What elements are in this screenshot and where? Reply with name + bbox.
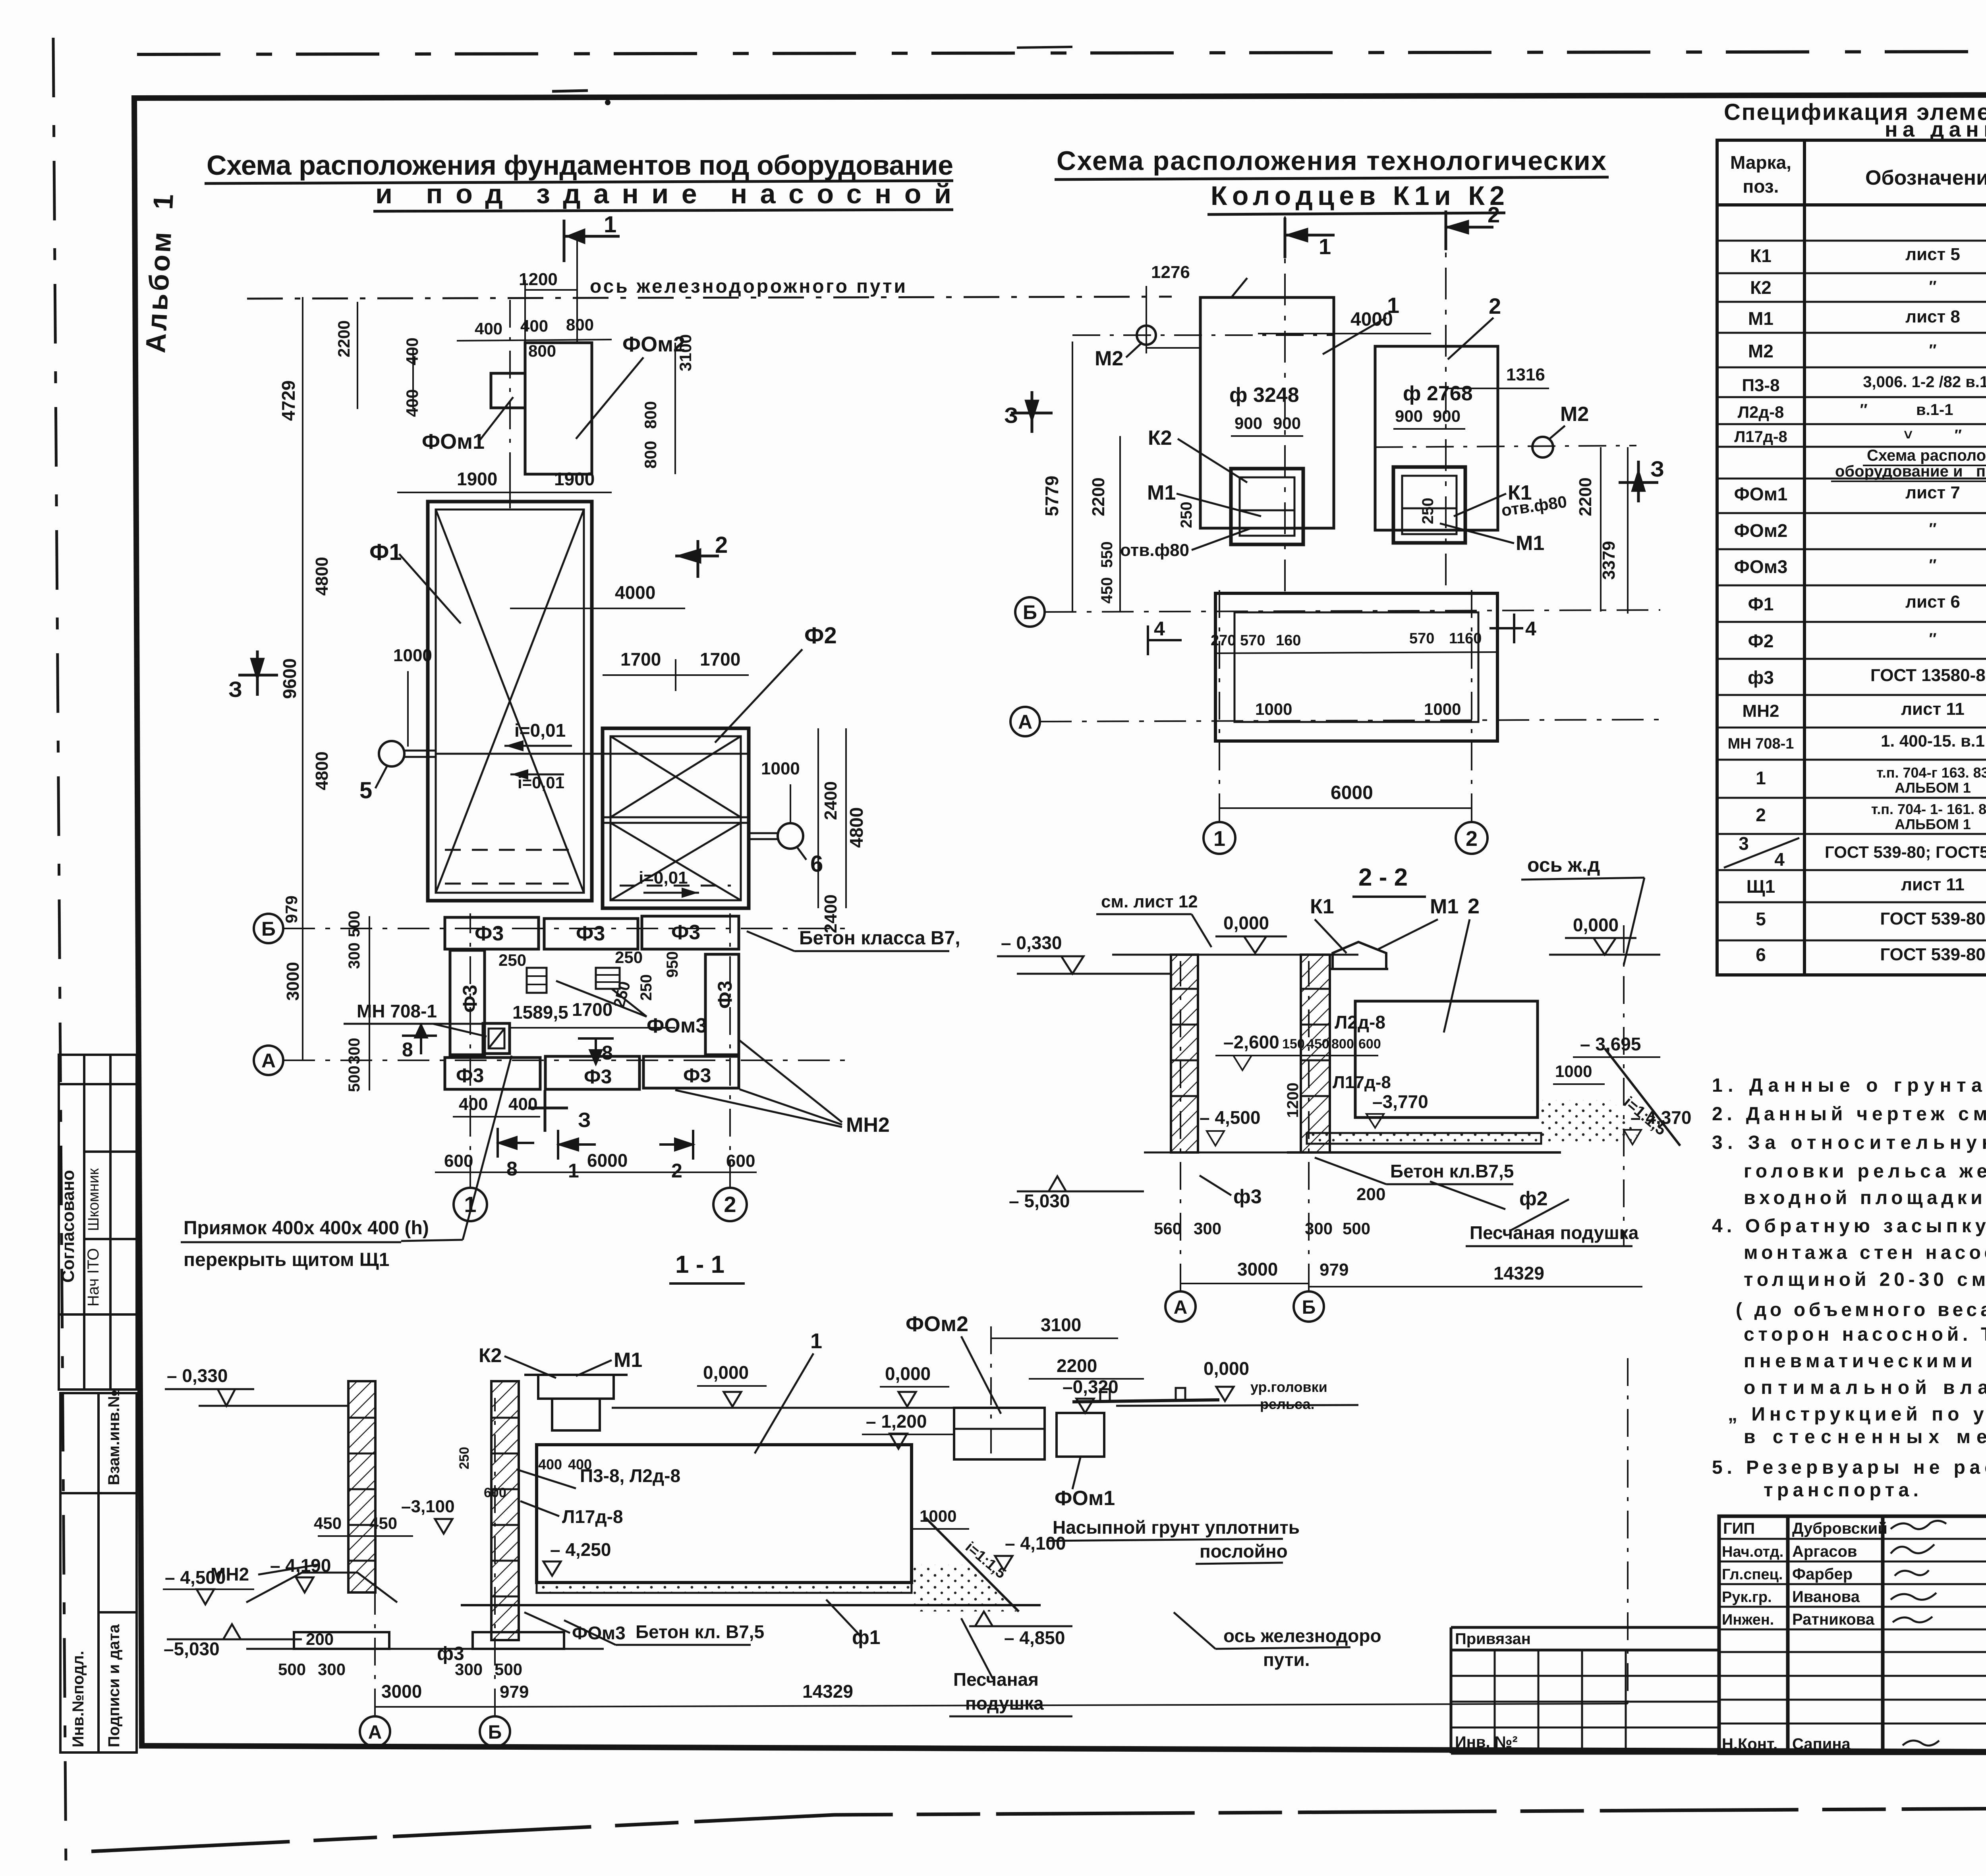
svg-text:1000: 1000 [1555, 1062, 1592, 1081]
svg-text:головки рельса железнодорожн: головки рельса железнодорожного пути и у… [1744, 1161, 1986, 1182]
M2 right [1532, 437, 1553, 457]
svg-text:Л2д-8: Л2д-8 [1335, 1012, 1385, 1033]
svg-text:950: 950 [664, 951, 681, 978]
svg-text:ФОм1: ФОм1 [1734, 484, 1788, 504]
outlet circle 6 [778, 823, 803, 849]
svg-text:200: 200 [306, 1630, 334, 1648]
section flag 3 left (middle plan) [1011, 391, 1053, 433]
F2 split [603, 816, 749, 818]
svg-text:З: З [578, 1109, 591, 1132]
svg-text:1000: 1000 [761, 759, 800, 778]
svg-text:Л17д-8: Л17д-8 [562, 1506, 623, 1527]
svg-text:Ф1: Ф1 [1748, 594, 1774, 614]
svg-text:Бетон класса В7,: Бетон класса В7, [799, 928, 960, 949]
svg-text:3,006. 1-2 /82 в.1-2: 3,006. 1-2 /82 в.1-2 [1863, 373, 1986, 391]
inlet circle 5 [379, 741, 404, 766]
svg-text:250: 250 [457, 1447, 472, 1469]
svg-text:– 4,850: – 4,850 [1004, 1627, 1065, 1648]
svg-text:Б: Б [1302, 1297, 1316, 1318]
left wall column (1-1) [348, 1381, 375, 1592]
svg-text:1276: 1276 [1151, 262, 1190, 282]
svg-text:лист 7: лист 7 [1905, 483, 1960, 502]
svg-text:ФОм3: ФОм3 [647, 1014, 707, 1037]
svg-text:ФОм3: ФОм3 [572, 1623, 626, 1643]
svg-text:входной площадки насосной.: входной площадки насосной. [1744, 1187, 1986, 1208]
svg-text:14329: 14329 [1493, 1263, 1544, 1283]
svg-text:Ф3: Ф3 [671, 921, 700, 944]
slope and sand (1-1) [925, 1518, 1019, 1612]
svg-text:3100: 3100 [676, 334, 695, 371]
svg-text:400: 400 [508, 1094, 537, 1114]
pallet F1 inner [436, 510, 584, 893]
axis B (left plan) [254, 914, 283, 943]
section flag 1 (top) [564, 220, 620, 262]
section flag 3 (left) [238, 650, 278, 696]
svg-text:– 4,370: – 4,370 [1631, 1107, 1691, 1128]
svg-text:Н.Конт.: Н.Конт. [1722, 1735, 1777, 1753]
svg-text:2: 2 [715, 532, 728, 558]
section line 1 (middle plan) [1284, 216, 1286, 596]
svg-text:М2: М2 [1560, 403, 1589, 426]
M2 left [1137, 326, 1156, 345]
rails (1-1) [1072, 1400, 1219, 1402]
svg-text:2400: 2400 [821, 781, 840, 820]
svg-text:Аргасов: Аргасов [1792, 1543, 1857, 1560]
svg-text:ГОСТ 13580-85: ГОСТ 13580-85 [1870, 666, 1986, 685]
bottom slab (1-1) [537, 1583, 912, 1593]
svg-text:Привязан: Привязан [1455, 1630, 1531, 1648]
svg-text:1000: 1000 [1255, 700, 1292, 718]
svg-text:рельса.: рельса. [1260, 1396, 1315, 1412]
svg-text:450: 450 [1098, 577, 1116, 604]
reservoir 2 outline [1375, 346, 1498, 530]
well cap (2-2) [1333, 942, 1386, 969]
svg-text:900: 900 [1395, 407, 1423, 425]
svg-text:ф1: ф1 [852, 1626, 881, 1648]
svg-text:1: 1 [1319, 234, 1331, 259]
svg-text:МН2: МН2 [1743, 701, 1779, 721]
svg-text:4: 4 [1154, 618, 1165, 640]
svg-text:150: 150 [1282, 1036, 1305, 1052]
svg-text:Ф3: Ф3 [714, 981, 736, 1009]
svg-text:2200: 2200 [1576, 477, 1595, 516]
svg-text:толщиной 20-30 см. с плотной: толщиной 20-30 см. с плотной трамбовкой [1744, 1269, 1986, 1290]
svg-text:– 0,330: – 0,330 [167, 1365, 228, 1386]
axis B (middle plan) [1015, 597, 1045, 627]
svg-text:в стесненных местах” СН 536-: в стесненных местах” СН 536-81 [1744, 1426, 1986, 1448]
svg-text:500: 500 [1343, 1219, 1370, 1238]
svg-text:К2: К2 [1750, 277, 1772, 298]
svg-text:оптимальной влажности грун: оптимальной влажности грунта . в соответ… [1744, 1377, 1986, 1398]
svg-text:Схема расположения технологи: Схема расположения технологических [1057, 146, 1606, 176]
svg-text:3: 3 [1739, 833, 1749, 854]
svg-text:800: 800 [528, 342, 556, 360]
svg-text:–3,770: –3,770 [1372, 1091, 1428, 1112]
svg-text:ф2: ф2 [1519, 1187, 1548, 1210]
svg-text:0,000: 0,000 [703, 1362, 749, 1383]
svg-text:Ф3: Ф3 [576, 922, 605, 945]
title block outer [1719, 1516, 1986, 1753]
svg-text:9600: 9600 [279, 658, 300, 699]
svg-text:лист 6: лист 6 [1905, 592, 1960, 612]
svg-text:Дубровский: Дубровский [1792, 1520, 1887, 1537]
svg-text:т.п. 704-г 163. 83: т.п. 704-г 163. 83 [1876, 764, 1986, 781]
svg-text:Л2д-8: Л2д-8 [1738, 403, 1784, 421]
svg-text:ФОм1: ФОм1 [422, 430, 485, 454]
well K2 cap (1-1) [538, 1375, 614, 1399]
svg-text:1: 1 [810, 1329, 822, 1353]
svg-text:300: 300 [346, 942, 363, 969]
svg-text:300: 300 [455, 1660, 483, 1679]
svg-text:8: 8 [602, 1042, 613, 1064]
svg-text:ф3: ф3 [1233, 1185, 1262, 1208]
svg-text:монтажа стен насосной, равно: монтажа стен насосной, равномерными слоя… [1744, 1242, 1986, 1263]
svg-text:2200: 2200 [1057, 1355, 1097, 1376]
svg-text:500: 500 [346, 1065, 363, 1092]
svg-text:4000: 4000 [615, 582, 655, 603]
svg-text:МН2: МН2 [846, 1114, 890, 1137]
svg-text:6: 6 [810, 851, 823, 877]
svg-text:Инв.№подл.: Инв.№подл. [70, 1651, 87, 1747]
svg-text:Ф2: Ф2 [804, 623, 837, 648]
svg-text:поз.: поз. [1743, 176, 1779, 197]
svg-text:отв.ф80: отв.ф80 [1120, 540, 1189, 560]
pallet F2 inner [610, 736, 741, 900]
tank 1 (1-1) [537, 1445, 912, 1583]
svg-text:Б: Б [261, 918, 276, 940]
svg-text:Приямок 400х 400х 400 (h): Приямок 400х 400х 400 (h) [184, 1218, 429, 1239]
F2 diagonals [610, 736, 741, 817]
svg-text:400: 400 [568, 1456, 592, 1473]
svg-text:Схема расположения фундаменто: Схема расположения фундаментов под обору… [207, 150, 953, 181]
slope and sand (2-2) [1605, 1048, 1680, 1146]
svg-text:3000: 3000 [283, 962, 303, 1001]
svg-text:600: 600 [444, 1151, 473, 1171]
svg-text:Ф3: Ф3 [584, 1065, 612, 1088]
svg-text:Бетон кл. В7,5: Бетон кл. В7,5 [636, 1621, 764, 1642]
svg-text:– 0,330: – 0,330 [1001, 932, 1062, 953]
svg-text:500: 500 [278, 1660, 306, 1679]
svg-text:1000: 1000 [920, 1507, 956, 1525]
svg-text:т.п. 704- 1- 161. 83: т.п. 704- 1- 161. 83 [1871, 801, 1986, 817]
svg-text:3000: 3000 [381, 1681, 422, 1702]
svg-text:600: 600 [1358, 1036, 1381, 1052]
svg-text:979: 979 [500, 1682, 529, 1702]
svg-text:– 4,250: – 4,250 [550, 1539, 611, 1560]
svg-text:пути.: пути. [1263, 1649, 1310, 1670]
svg-text:З: З [228, 677, 242, 702]
sheet top edge [137, 51, 1986, 54]
section flag 3 (bottom) [528, 1090, 568, 1132]
svg-text:1 - 1: 1 - 1 [675, 1251, 724, 1278]
svg-text:560: 560 [1154, 1219, 1182, 1238]
svg-text:А: А [368, 1722, 382, 1743]
svg-text:500: 500 [495, 1660, 522, 1679]
svg-text:″: ″ [1929, 520, 1936, 538]
svg-text:Песчаная: Песчаная [953, 1669, 1039, 1690]
svg-text:Согласовано: Согласовано [58, 1170, 78, 1283]
svg-text:М1: М1 [1147, 481, 1176, 504]
svg-text:Иванова: Иванова [1792, 1588, 1860, 1606]
svg-text:Шкомник: Шкомник [85, 1168, 102, 1231]
svg-text:Гл.спец.: Гл.спец. [1722, 1566, 1783, 1583]
pallet F2 outer [603, 728, 749, 908]
svg-text:1. Данные о грунтах см. л: 1. Данные о грунтах см. лист КЖ-1 [1712, 1075, 1986, 1096]
svg-text:″: ″ [1929, 630, 1936, 648]
pipe line through F1 [436, 753, 749, 755]
svg-text:1200: 1200 [1284, 1083, 1302, 1118]
left extension table [1451, 1627, 1719, 1753]
svg-text:перекрыть щитом Щ1: перекрыть щитом Щ1 [184, 1249, 389, 1270]
svg-text:Ф3: Ф3 [475, 922, 504, 945]
svg-text:К1: К1 [1310, 895, 1334, 918]
svg-text:400: 400 [459, 1094, 488, 1114]
FOm centerline [509, 300, 511, 502]
svg-text:Фарбер: Фарбер [1792, 1565, 1853, 1583]
svg-text:2: 2 [1756, 805, 1766, 825]
svg-text:ур.головки: ур.головки [1250, 1379, 1327, 1395]
svg-text:ГОСТ 539-80; ГОСТ5228-76: ГОСТ 539-80; ГОСТ5228-76 [1825, 843, 1986, 861]
tank 2 (2-2) [1355, 1001, 1538, 1117]
svg-text:300: 300 [1194, 1219, 1221, 1238]
svg-text:Песчаная подушка: Песчаная подушка [1470, 1222, 1639, 1243]
svg-text:14329: 14329 [802, 1681, 853, 1702]
svg-text:8: 8 [506, 1158, 518, 1180]
svg-text:″: ″ [1929, 556, 1936, 574]
svg-text:см. лист 12: см. лист 12 [1101, 892, 1198, 911]
svg-text:К2: К2 [479, 1344, 502, 1366]
svg-text:5: 5 [1756, 909, 1766, 929]
section 1-1 zero line [612, 1407, 985, 1409]
svg-text:– 3,695: – 3,695 [1580, 1034, 1641, 1054]
left margin stamp: coordination block [59, 1055, 137, 1390]
svg-text:900: 900 [1273, 414, 1301, 432]
svg-text:ф 3248: ф 3248 [1229, 384, 1299, 407]
svg-text:250: 250 [615, 948, 643, 967]
spec table grid [1717, 140, 1986, 975]
svg-text:250: 250 [498, 951, 526, 969]
svg-text:2: 2 [671, 1160, 682, 1182]
bottom dim line of left plan [435, 1172, 757, 1173]
stray marks top [552, 91, 588, 91]
foundation FOm1 [491, 373, 525, 408]
ground line (2-2) [1112, 954, 1358, 956]
svg-text:Нач.отд.: Нач.отд. [1722, 1544, 1783, 1560]
svg-text:800: 800 [566, 315, 594, 334]
bottom slab (2-2) [1307, 1133, 1541, 1144]
svg-text:400: 400 [403, 389, 421, 417]
svg-text:450: 450 [1307, 1036, 1329, 1052]
svg-text:АЛЬБОМ 1: АЛЬБОМ 1 [1895, 816, 1971, 832]
vertical strips F3 [450, 950, 485, 1055]
svg-text:2200: 2200 [1089, 477, 1108, 516]
section 8 flag [402, 1025, 437, 1054]
svg-text:Ф3: Ф3 [683, 1064, 711, 1087]
signature squiggles [1891, 1521, 1946, 1529]
svg-text:″: ″ [1929, 278, 1936, 295]
svg-text:3379: 3379 [1599, 541, 1619, 580]
svg-text:подушка: подушка [965, 1693, 1044, 1714]
svg-text:–3,100: –3,100 [401, 1497, 455, 1516]
svg-text:Спецификация элементов к схе: Спецификация элементов к схемам, располо… [1724, 99, 1986, 125]
svg-text:А: А [261, 1050, 276, 1072]
svg-text:4729: 4729 [278, 380, 299, 421]
axis circles (1-1) [360, 1716, 390, 1747]
svg-text:ось железнодорожного пути: ось железнодорожного пути [590, 276, 906, 297]
foundation FOm2 [525, 343, 592, 474]
foundation strip row A [445, 1058, 540, 1089]
svg-text:Инв. №²: Инв. №² [1455, 1733, 1518, 1751]
svg-text:270: 270 [1211, 632, 1236, 649]
svg-text:˅ ″: ˅ ″ [1904, 427, 1962, 444]
svg-text:Насыпной грунт уплотнить: Насыпной грунт уплотнить [1053, 1517, 1300, 1538]
svg-text:1316: 1316 [1506, 365, 1545, 384]
railway axis vertical (1-1) [1627, 1358, 1629, 1704]
svg-text:лист 5: лист 5 [1905, 245, 1960, 264]
svg-text:4800: 4800 [312, 557, 332, 596]
svg-text:Ф2: Ф2 [1748, 631, 1774, 651]
foundation strip row B [445, 917, 539, 949]
svg-text:2: 2 [1466, 827, 1478, 851]
svg-text:8: 8 [402, 1038, 413, 1061]
svg-text:2: 2 [1488, 202, 1500, 227]
svg-text:Сапина: Сапина [1792, 1735, 1851, 1753]
F1 diagonals [436, 510, 584, 893]
svg-text:ФОм2: ФОм2 [906, 1312, 968, 1336]
svg-text:Л17д-8: Л17д-8 [1333, 1073, 1391, 1092]
svg-text:К2: К2 [1148, 427, 1172, 450]
column axes 1 and 2 (middle plan) [1219, 588, 1220, 821]
svg-text:Л17д-8: Л17д-8 [1734, 428, 1787, 446]
svg-text:3100: 3100 [1041, 1314, 1081, 1335]
svg-text:900: 900 [1433, 407, 1461, 425]
svg-text:Б: Б [1023, 601, 1037, 623]
svg-text:М1: М1 [1516, 532, 1544, 555]
well K2 [1231, 469, 1303, 544]
svg-text:1160: 1160 [1449, 630, 1482, 647]
svg-text:450: 450 [314, 1514, 342, 1532]
svg-text:1000: 1000 [1424, 700, 1461, 718]
svg-text:1: 1 [1387, 293, 1399, 318]
svg-text:– 5,030: – 5,030 [1009, 1191, 1070, 1211]
svg-text:4: 4 [1774, 849, 1785, 870]
svg-text:ФОм2: ФОм2 [1734, 520, 1788, 541]
svg-text:5: 5 [359, 778, 372, 803]
svg-text:0,000: 0,000 [885, 1363, 931, 1384]
svg-text:послойно: послойно [1200, 1541, 1288, 1561]
sheet left edge [53, 38, 66, 1866]
svg-text:Ф1: Ф1 [369, 539, 402, 565]
second wall column (1-1) [491, 1381, 519, 1640]
svg-text:1900: 1900 [457, 469, 497, 489]
svg-text:М1: М1 [614, 1349, 642, 1372]
svg-text:550: 550 [1098, 541, 1116, 568]
svg-text:Бетон кл.В7,5: Бетон кл.В7,5 [1390, 1161, 1514, 1181]
axis A (left plan) [254, 1046, 283, 1075]
svg-text:2: 2 [724, 1192, 736, 1217]
svg-text:800: 800 [641, 441, 660, 469]
svg-text:ГИП: ГИП [1723, 1520, 1755, 1537]
svg-text:Рук.гр.: Рук.гр. [1722, 1589, 1772, 1606]
svg-text:МН 708-1: МН 708-1 [1728, 735, 1794, 752]
F1 dashed bottom lines [445, 849, 576, 851]
svg-text:( до объемного веса γ = 1600: ( до объемного веса γ = 1600 кг|м³) одно… [1736, 1299, 1986, 1320]
svg-text:4800: 4800 [312, 751, 332, 790]
svg-text:2 - 2: 2 - 2 [1358, 864, 1408, 891]
svg-text:1700: 1700 [572, 999, 612, 1020]
svg-text:Схема расположения фундаментов: Схема расположения фундаментов под [1867, 447, 1986, 464]
svg-text:АЛЬБОМ 1: АЛЬБОМ 1 [1895, 780, 1971, 796]
svg-text:5779: 5779 [1041, 476, 1062, 516]
svg-text:лист 11: лист 11 [1901, 875, 1965, 894]
FOm1 pier (1-1) [1057, 1413, 1104, 1457]
svg-text:900: 900 [1234, 414, 1262, 432]
svg-text:– 1,200: – 1,200 [866, 1411, 927, 1432]
svg-text:–2,600: –2,600 [1223, 1032, 1279, 1052]
svg-text:М2: М2 [1095, 347, 1123, 370]
section line 2 (middle plan) [1445, 210, 1447, 588]
svg-text:450: 450 [369, 1514, 397, 1532]
svg-text:М1: М1 [1748, 308, 1773, 329]
svg-text:979: 979 [1319, 1260, 1348, 1280]
section flags 4 [1148, 625, 1182, 655]
svg-text:1700: 1700 [700, 649, 740, 670]
FOm3 pads [527, 968, 547, 993]
svg-text:Марка,: Марка, [1730, 152, 1791, 173]
svg-text:3000: 3000 [1237, 1259, 1278, 1280]
svg-text:лист 11: лист 11 [1901, 699, 1965, 719]
svg-text:1000: 1000 [393, 646, 432, 665]
svg-text:М1: М1 [1430, 895, 1459, 918]
svg-text:1: 1 [568, 1160, 579, 1182]
footing pads (1-1) [294, 1632, 389, 1649]
svg-text:Взам.инв.№: Взам.инв.№ [105, 1390, 123, 1485]
svg-text:1900: 1900 [554, 469, 595, 489]
well K1 [1393, 467, 1465, 543]
svg-text:П3-8: П3-8 [1742, 376, 1779, 395]
svg-text:6000: 6000 [1331, 782, 1373, 803]
svg-text:– 4,500: – 4,500 [165, 1567, 226, 1588]
svg-text:6000: 6000 [587, 1150, 628, 1171]
svg-text:250: 250 [1178, 502, 1195, 528]
svg-text:К1: К1 [1750, 245, 1772, 266]
svg-text:ось железнодоро: ось железнодоро [1223, 1625, 1381, 1646]
axis A (middle plan) [1010, 707, 1040, 736]
svg-text:800: 800 [641, 401, 660, 429]
svg-text:1: 1 [1213, 827, 1225, 851]
svg-text:i=0,01: i=0,01 [639, 868, 688, 888]
svg-text:400: 400 [538, 1456, 562, 1473]
svg-text:Обозначение: Обозначение [1865, 166, 1986, 189]
svg-text:0,000: 0,000 [1223, 913, 1269, 933]
svg-text:оборудование и под здание н: оборудование и под здание насосной [1835, 463, 1986, 480]
svg-text:250: 250 [638, 974, 655, 1001]
svg-text:Нач ІТО: Нач ІТО [85, 1248, 102, 1307]
svg-text:ГОСТ 539-80: ГОСТ 539-80 [1880, 909, 1985, 928]
column axis circles 1 2 [454, 1188, 487, 1221]
svg-text:ф 2768: ф 2768 [1403, 382, 1473, 405]
railway axis (left plan) [247, 297, 1172, 299]
svg-text:800: 800 [1331, 1036, 1354, 1052]
svg-text:979: 979 [282, 896, 301, 923]
svg-text:сторон насосной. Трамбование: сторон насосной. Трамбование должно прои… [1744, 1324, 1986, 1345]
svg-text:0,000: 0,000 [1573, 915, 1619, 935]
svg-text:570: 570 [1409, 630, 1434, 647]
svg-text:400: 400 [403, 338, 421, 365]
svg-text:Б: Б [488, 1722, 502, 1743]
svg-text:–5,030: –5,030 [164, 1639, 220, 1659]
svg-text:лист 8: лист 8 [1905, 307, 1960, 326]
